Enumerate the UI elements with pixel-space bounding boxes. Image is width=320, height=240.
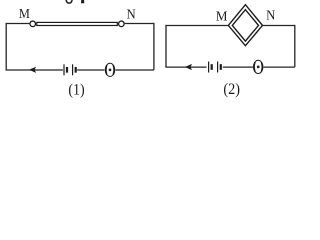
battery cell 1 long plate (circuit 2) [208,62,210,73]
meter body (circle-dot symbol, circuit 2) [254,60,263,73]
bent resistance wire: diamond inner outline [232,10,258,41]
wire: circuit2 left vertical [165,25,167,67]
text fragment (cropped letter stem from line above) [81,0,84,3]
svg-text:N: N [127,7,136,22]
svg-text:M: M [19,7,30,22]
wire: circuit1 bottom between battery and meter [77,69,104,71]
battery cell 1 short plate (circuit 2) [211,64,213,70]
wire: circuit2 top-left horizontal [166,25,228,27]
bent resistance wire: diamond outer outline [228,5,262,46]
meter center dot (circuit 1) [109,69,112,72]
svg-text:N: N [266,8,275,23]
resistance wire MN (bar) [37,22,118,25]
current direction arrow (circuit 1) [29,67,36,73]
battery cell 2 long plate (circuit 2) [217,62,219,73]
wire: circuit1 left vertical [5,23,7,70]
terminal M (circuit 1) [30,21,36,27]
meter body (circle-dot symbol, circuit 1) [105,63,114,76]
wire: circuit1 top-left horizontal [6,23,29,25]
svg-text:M: M [216,10,228,25]
svg-text:(1): (1) [68,81,84,98]
terminal N (circuit 1) [119,21,125,27]
meter1 right side arc emphasis [112,65,115,75]
battery cell 1 long plate (circuit 1) [63,64,65,75]
battery cell 1 short plate (circuit 1) [66,67,68,73]
wire: circuit2 bottom left segment [165,66,206,68]
wire: circuit1 bottom right segment [116,69,154,71]
battery cell 2 short plate (circuit 1) [75,67,77,73]
meter2 left side arc emphasis [253,62,256,72]
battery cell 2 short plate (circuit 2) [220,64,222,70]
wire: circuit2 top-right horizontal [263,25,295,27]
battery cell 2 long plate (circuit 1) [72,64,74,75]
wire: circuit1 bottom left segment [6,69,63,71]
meter2 right side arc emphasis [260,62,263,72]
meter center dot (circuit 2) [257,66,260,69]
wire: circuit2 bottom between battery and meter [223,66,253,68]
wire: circuit1 right vertical [153,23,155,70]
meter1 left side arc emphasis [105,65,108,75]
svg-text:(2): (2) [223,81,240,98]
wire: circuit1 top-right horizontal [125,23,154,25]
wire: circuit2 bottom right segment [264,66,295,68]
text fragment (cropped letter bowl from line above) [66,0,72,3]
current direction arrow (circuit 2) [185,64,192,70]
wire: circuit2 right vertical [294,25,296,67]
